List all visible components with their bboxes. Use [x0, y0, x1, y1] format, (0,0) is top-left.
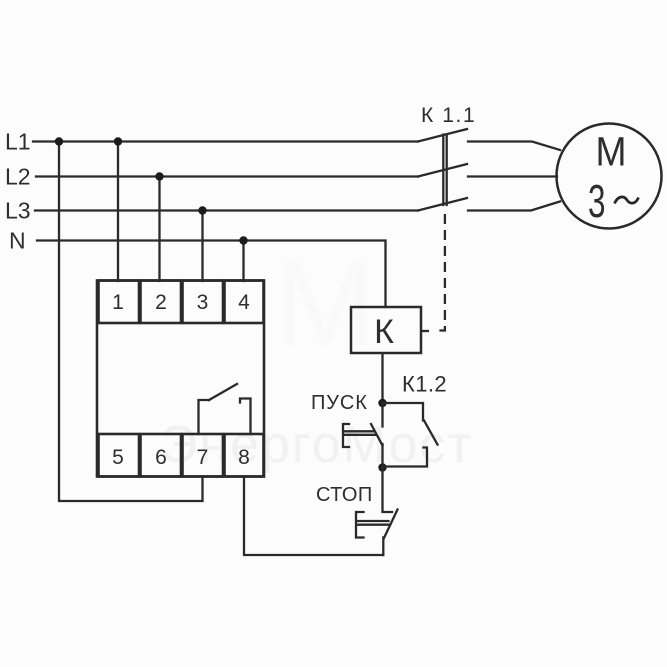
terminal 2 box — [141, 281, 182, 324]
terminal 1 box — [99, 281, 140, 324]
relay module U1 outline — [97, 281, 264, 477]
motor label tilde — [615, 197, 639, 204]
wire: K1.1 to motor phase 3 — [468, 202, 560, 211]
relay internal contact: moving blade — [209, 384, 237, 400]
stop button SB2 actuator link upper — [357, 520, 389, 522]
svg-text:N: N — [9, 228, 26, 254]
node: junction below start button — [378, 463, 386, 471]
wire: coil K to start button junction — [381, 353, 383, 403]
svg-text:М: М — [275, 237, 375, 371]
contact K1.2 moving blade — [424, 421, 438, 445]
svg-text:3: 3 — [197, 291, 209, 314]
node: N terminal 4 junction — [239, 236, 247, 244]
relay internal contact: terminal 7 lead — [199, 400, 210, 434]
svg-text:6: 6 — [155, 446, 167, 469]
contact K1.1 pole 1 blade — [418, 129, 467, 142]
svg-text:3: 3 — [588, 175, 606, 227]
terminal 6 box — [141, 434, 182, 477]
node: L2 terminal 2 junction — [155, 172, 163, 180]
contact K1.1 linkage bar left — [442, 135, 444, 206]
svg-text:L2: L2 — [5, 164, 31, 190]
terminal 8 box — [225, 434, 264, 477]
wire: L1 rail — [33, 140, 418, 142]
start button SB1 bottom terminal wire — [381, 444, 383, 468]
svg-text:4: 4 — [238, 291, 250, 314]
start button SB1 actuator link upper — [344, 430, 374, 432]
wire: stub N to terminal 4 — [242, 241, 244, 282]
wire: N rail down to coil K — [37, 241, 386, 308]
terminal 5 box — [99, 434, 140, 477]
svg-text:ПУСК: ПУСК — [311, 392, 368, 414]
contact K1.2 bottom lead back to junction — [383, 448, 428, 467]
wire: K1.1 to motor phase 2 — [468, 175, 557, 177]
contact K1.2 top lead — [383, 403, 424, 421]
coil K right-side tick — [421, 330, 429, 332]
wire: stub L1 to terminal 1 — [117, 142, 119, 282]
svg-text:СТОП: СТОП — [316, 484, 373, 506]
wire: L2 rail — [36, 175, 418, 177]
svg-text:5: 5 — [112, 446, 124, 469]
svg-text:К 1.1: К 1.1 — [421, 104, 476, 127]
wire: stub L3 to terminal 3 — [201, 211, 203, 282]
terminal 4 box — [225, 281, 264, 324]
svg-text:К1.2: К1.2 — [402, 372, 447, 397]
stop button SB2 actuator link lower — [357, 524, 390, 526]
svg-text:7: 7 — [197, 446, 209, 469]
node: L1 bypass junction — [55, 137, 63, 145]
start button SB1 top terminal wire — [381, 403, 383, 427]
wire: terminal 8 down to stop button — [244, 477, 383, 556]
svg-text:8: 8 — [238, 446, 250, 469]
stop button SB2 bottom terminal wire — [382, 538, 384, 556]
wire: stub L2 to terminal 2 — [158, 177, 160, 282]
start button SB1 actuator bracket — [343, 424, 349, 447]
start button SB1 moving blade — [371, 424, 383, 446]
contactor coil K box — [351, 307, 421, 353]
stop button SB2 top terminal wire with hook — [383, 468, 393, 513]
svg-text:М: М — [596, 129, 627, 175]
terminal 3 box — [183, 281, 224, 324]
wire: L3 rail — [35, 209, 418, 211]
contact K1.1 pole 2 blade — [418, 164, 467, 177]
svg-text:L1: L1 — [5, 129, 31, 155]
relay internal contact: terminal 8 lead with hook — [240, 399, 251, 435]
motor M circle — [557, 124, 662, 229]
svg-text:L3: L3 — [5, 198, 31, 224]
dashed mechanical link K1.1 to coil K — [435, 214, 445, 331]
stop button SB2 moving blade — [384, 510, 398, 539]
start button SB1 actuator link lower — [344, 434, 376, 436]
node: L3 terminal 3 junction — [198, 206, 206, 214]
wire: L1 bypass down-left to terminal 7 — [59, 142, 203, 502]
svg-text:1: 1 — [112, 291, 124, 314]
svg-text:К: К — [374, 313, 394, 351]
svg-text:2: 2 — [155, 291, 167, 314]
contact K1.1 linkage bar right — [446, 135, 448, 206]
node: junction above start button — [378, 399, 386, 407]
wire: K1.1 to motor phase 1 — [468, 142, 560, 151]
stop button SB2 actuator bracket — [356, 512, 364, 538]
contact K1.1 pole 3 blade — [418, 198, 467, 211]
node: L1 terminal 1 junction — [114, 137, 122, 145]
terminal 7 box — [183, 434, 224, 477]
